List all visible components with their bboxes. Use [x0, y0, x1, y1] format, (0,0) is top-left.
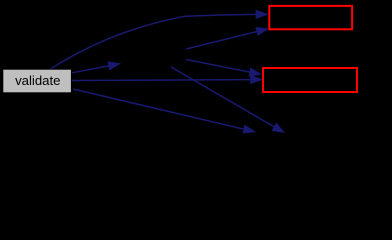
- edge: hidden middle node → hidden bottom node: [171, 67, 285, 133]
- edge: validate → truncated node 1 (curved arc over top): [49, 10, 269, 70]
- edge: validate → hidden bottom node: [73, 89, 256, 134]
- node: truncated node 2 (red outlined box, black label invisible on black): [263, 68, 357, 92]
- edge: validate → truncated node 2 (straight horizontal): [72, 75, 263, 84]
- edge: hidden middle node → truncated node 1: [186, 27, 269, 49]
- edge: hidden middle node → truncated node 2: [186, 60, 262, 77]
- svg-text:validate: validate: [15, 73, 60, 88]
- node: validate (current function, grey filled box): [3, 69, 72, 93]
- node: truncated node 1 (red outlined box, black label invisible on black): [269, 6, 352, 29]
- edge: validate → hidden middle node: [72, 61, 121, 73]
